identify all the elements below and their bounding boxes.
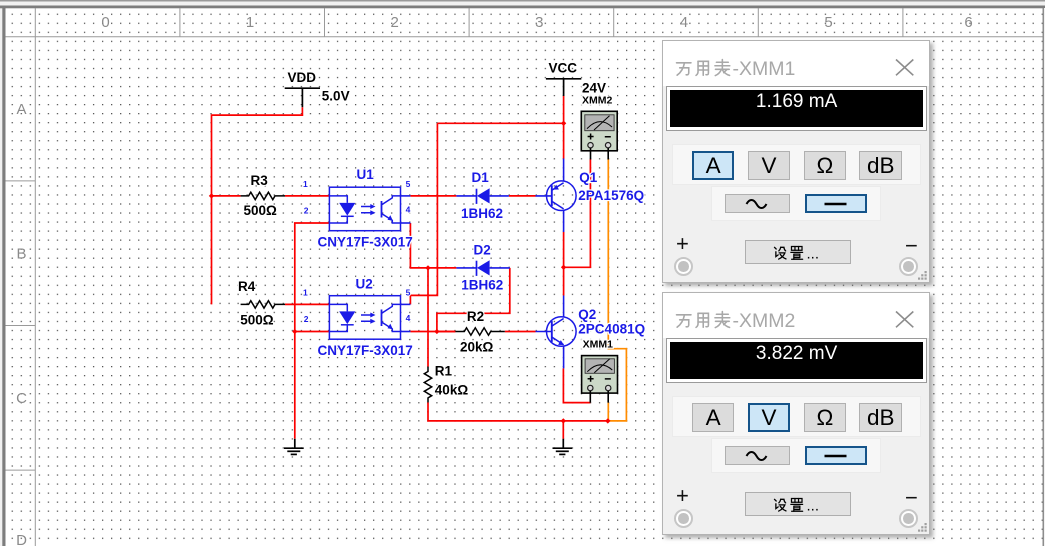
svg-text:0: 0 (101, 14, 109, 31)
svg-text:3: 3 (535, 14, 543, 31)
svg-text:VDD: VDD (288, 70, 317, 85)
svg-text:4: 4 (406, 204, 411, 214)
svg-text:2: 2 (391, 14, 399, 31)
svg-text:2: 2 (304, 314, 309, 324)
svg-text:U1: U1 (357, 167, 375, 182)
svg-text:4: 4 (406, 313, 411, 323)
svg-text:Q2: Q2 (578, 307, 596, 322)
svg-text:D2: D2 (474, 243, 491, 258)
svg-text:20kΩ: 20kΩ (460, 339, 494, 354)
svg-text:-XMM1: -XMM1 (733, 58, 796, 80)
svg-text:5: 5 (406, 287, 411, 297)
svg-text:500Ω: 500Ω (240, 312, 274, 327)
svg-text:1BH62: 1BH62 (461, 206, 503, 221)
svg-text:4: 4 (680, 14, 688, 31)
svg-text:1BH62: 1BH62 (461, 278, 503, 293)
svg-text:1: 1 (303, 287, 308, 297)
svg-text:XMM1: XMM1 (583, 338, 613, 350)
svg-text:...: ... (807, 245, 820, 262)
svg-text:CNY17F-3X017: CNY17F-3X017 (318, 234, 413, 249)
svg-text:XMM2: XMM2 (582, 95, 612, 107)
svg-text:C: C (16, 390, 27, 407)
svg-text:2: 2 (304, 206, 309, 216)
svg-text:6: 6 (964, 14, 972, 31)
svg-text:R4: R4 (238, 279, 256, 294)
svg-text:500Ω: 500Ω (244, 203, 278, 218)
svg-text:...: ... (807, 497, 820, 514)
svg-text:B: B (16, 246, 26, 263)
svg-text:-XMM2: -XMM2 (733, 310, 796, 332)
svg-text:Q1: Q1 (579, 170, 598, 185)
svg-text:R3: R3 (251, 173, 269, 188)
svg-text:VCC: VCC (549, 60, 578, 75)
svg-text:A: A (16, 101, 26, 118)
svg-text:40kΩ: 40kΩ (435, 383, 469, 398)
svg-text:5: 5 (406, 179, 411, 189)
svg-text:24V: 24V (582, 81, 606, 96)
svg-text:R1: R1 (435, 364, 453, 379)
svg-text:5: 5 (824, 14, 832, 31)
svg-text:R2: R2 (467, 309, 484, 324)
svg-text:CNY17F-3X017: CNY17F-3X017 (318, 343, 413, 358)
svg-text:U2: U2 (356, 277, 373, 292)
svg-text:D1: D1 (472, 170, 490, 185)
svg-text:1: 1 (303, 179, 308, 189)
svg-text:1: 1 (246, 14, 254, 31)
svg-text:2PC4081Q: 2PC4081Q (578, 321, 645, 336)
svg-text:2PA1576Q: 2PA1576Q (578, 188, 644, 203)
svg-text:5.0V: 5.0V (322, 89, 350, 104)
svg-text:D: D (16, 532, 27, 546)
